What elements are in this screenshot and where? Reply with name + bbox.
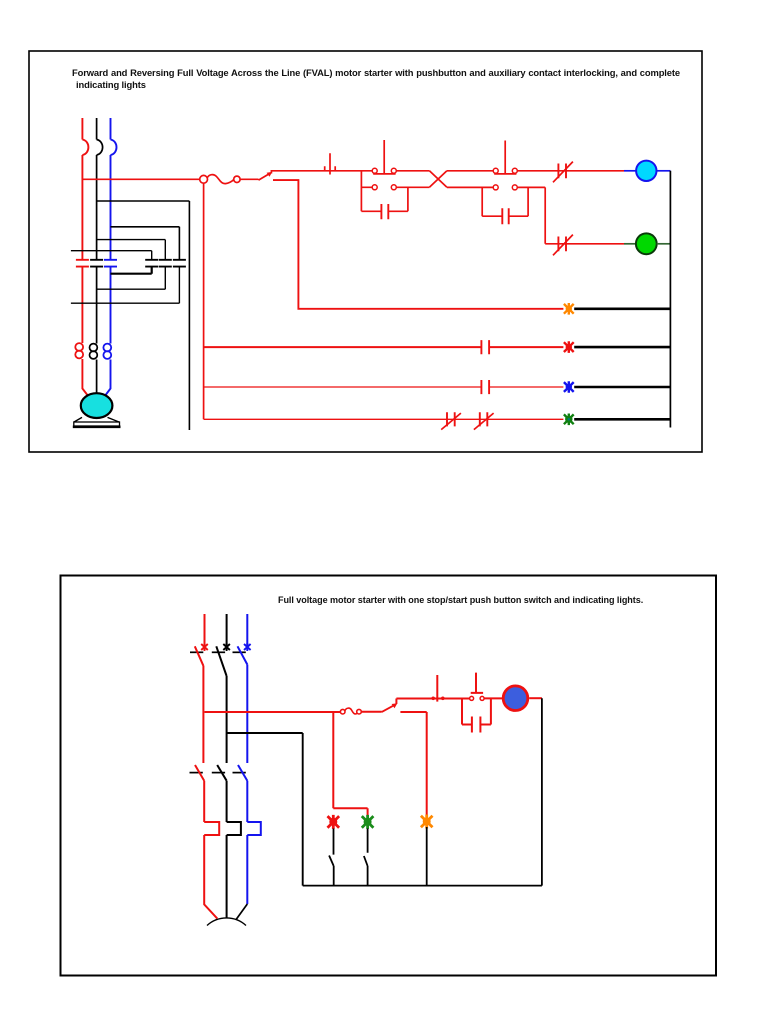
NC contact row 4 a	[447, 412, 455, 426]
stop pushbutton NC 2	[436, 675, 438, 702]
phase line P1 red	[204, 614, 206, 645]
star lamp red	[564, 341, 574, 353]
bottom bus black	[303, 885, 542, 887]
wire control main	[271, 171, 372, 174]
star lamp red 2	[328, 815, 340, 829]
overload bump P2	[227, 822, 241, 918]
circuit breaker pole L1	[82, 140, 88, 156]
lamp lead blue	[624, 170, 636, 172]
overload bump P3	[247, 822, 260, 904]
contactor blade P3	[238, 765, 247, 822]
control tap wire from L1	[82, 178, 199, 180]
wire L2 to reverse bus top	[97, 200, 190, 202]
NC contact row 4 b	[480, 412, 488, 426]
wire to lamp	[484, 697, 503, 699]
disconnect blade P1	[195, 646, 204, 763]
fuse FU1	[200, 175, 208, 183]
start pushbutton NO	[471, 673, 483, 693]
wire lamp to return	[529, 697, 542, 699]
wire PB-R to NC interlocks	[517, 171, 624, 244]
disconnect blade P3	[238, 646, 248, 763]
contactor fixed contact P2	[212, 772, 225, 774]
phase line P3 blue	[246, 614, 248, 645]
fuse FU2	[340, 709, 345, 714]
neutral tap from P2	[227, 733, 303, 886]
star lamp blue	[564, 381, 574, 393]
phase line L2 black	[96, 118, 98, 394]
phase line L3 blue	[103, 118, 110, 398]
contactor contact F-L1	[76, 260, 89, 267]
row 3 black wire	[574, 386, 670, 389]
right return rail	[669, 171, 671, 428]
branch to orange star	[400, 712, 426, 816]
row 2 black wire	[574, 346, 670, 349]
wire L2 to reverse contact R2	[97, 240, 166, 260]
NO contact row 3	[481, 380, 489, 394]
star lamp green	[564, 414, 574, 426]
auxiliary contact F seal-in	[361, 187, 408, 211]
contactor blade P1	[195, 765, 204, 822]
disconnect fixed contact P3	[233, 651, 246, 653]
wire crossover to PB-R	[447, 171, 493, 188]
motor M2 arc	[207, 918, 246, 926]
contactor fixed contact P1	[190, 772, 203, 774]
pushbutton PB-R bar and plunger	[494, 141, 516, 174]
circuit breaker pole L2	[97, 140, 103, 156]
overload heater L1	[75, 343, 83, 351]
motor M1 pedestal	[74, 417, 119, 422]
indicator lamp cyan	[636, 161, 656, 181]
wire branch to lamp row 1	[273, 180, 563, 309]
contactor contact R3	[173, 260, 186, 267]
wire R3 to L1 below	[71, 267, 179, 304]
contactor contact F-L3	[104, 260, 117, 267]
disconnect fixed contact P1	[190, 651, 203, 653]
disconnect blade 2	[382, 705, 394, 712]
pushbutton PB-F terminals	[372, 168, 377, 173]
wire R1 to L3 below	[111, 267, 152, 274]
pushbutton PB-R terminals	[493, 168, 498, 173]
contactor contact R2	[159, 260, 172, 267]
NO contact row 2	[481, 340, 489, 354]
seal-in auxiliary contact M	[462, 698, 491, 724]
NC contact before green lamp	[558, 237, 566, 252]
disconnect fixed contact P2	[212, 651, 225, 653]
row 4 black wire	[574, 418, 670, 421]
pushbutton PB-F bar and plunger	[373, 140, 395, 174]
contactor blade P2	[217, 765, 226, 822]
wire L3 to reverse contact R3	[111, 227, 180, 260]
row 1 black wire	[574, 307, 670, 310]
frame box diagram 2	[61, 576, 717, 976]
phase line L1 red	[82, 118, 89, 398]
auxiliary contact R seal-in	[482, 187, 528, 216]
row 3 red wire	[204, 386, 564, 388]
disconnect marker P1	[201, 643, 208, 651]
disconnect blade P2	[216, 646, 226, 763]
wire PB-F to crossover	[396, 171, 429, 188]
row 4 red wire	[204, 418, 564, 420]
frame box diagram 1	[29, 51, 702, 452]
return rail right black	[541, 698, 543, 885]
crossover interlock wires	[429, 171, 447, 188]
wire vertical right rail	[188, 201, 190, 430]
control tap wire red	[205, 711, 341, 713]
overload bump P1	[204, 822, 219, 919]
switch below red star	[329, 829, 334, 886]
stop pushbutton NC	[325, 153, 336, 174]
row 2 red wire	[204, 346, 564, 348]
motor M1	[81, 393, 113, 418]
wire PB-F lower left	[361, 171, 372, 212]
wire fuse to disconnect 2	[361, 711, 382, 713]
star lamp orange	[564, 303, 574, 315]
wire fuse drop to rows	[203, 183, 205, 419]
star lamp green 2	[362, 815, 374, 829]
motor M2 lead diagonal	[236, 904, 247, 919]
lamp lead green	[624, 243, 636, 245]
circuit breaker pole L3	[111, 140, 117, 156]
overload heater L2	[90, 344, 98, 352]
overload heater L3	[103, 344, 111, 352]
NC contact before red lamp	[558, 164, 566, 179]
disconnect marker P2	[223, 643, 230, 651]
wire fuse to disconnect	[240, 178, 258, 180]
indicator lamp green	[636, 233, 657, 254]
title diagram 1	[72, 67, 680, 79]
wire R2 to L2 below	[97, 267, 166, 290]
wire control main 2	[396, 699, 469, 704]
phase line P2 black	[226, 614, 228, 645]
branch to red green stars	[333, 712, 367, 816]
switch below green star	[364, 829, 368, 886]
contactor fixed contact P3	[233, 772, 246, 774]
indicator lamp blue	[503, 686, 528, 711]
contactor contact R1	[145, 260, 158, 267]
contactor contact F-L2	[90, 260, 103, 267]
star lamp orange 2	[421, 815, 433, 829]
wire L1 to reverse contact R1	[71, 251, 152, 260]
disconnect marker P3	[244, 643, 251, 651]
wire below orange star	[426, 827, 428, 886]
title diagram 2	[278, 594, 643, 606]
disconnect switch blade	[259, 174, 270, 181]
